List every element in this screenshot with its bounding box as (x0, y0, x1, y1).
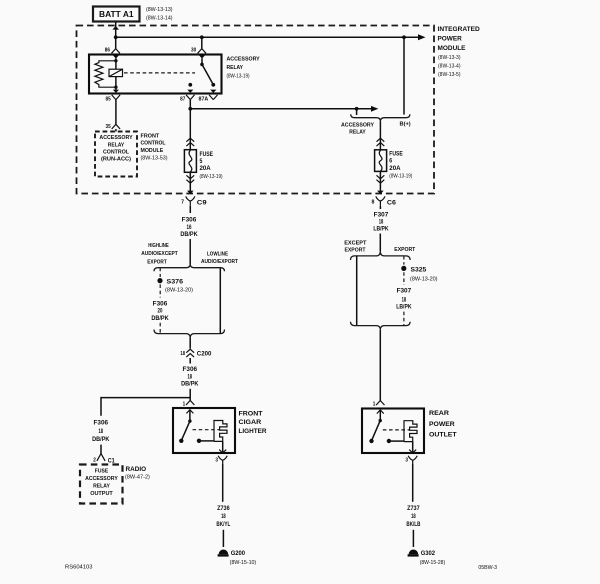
svg-text:1: 1 (373, 401, 376, 407)
lowline audio label (201, 251, 238, 265)
svg-text:OUTLET: OUTLET (429, 431, 457, 438)
fuse 5 (184, 150, 196, 173)
ground G302 (408, 550, 419, 557)
cigar lighter actuation dashed link (193, 429, 221, 431)
svg-text:18: 18 (402, 297, 407, 303)
wire fuse 6 to C6 (377, 171, 385, 194)
wire to radio C1 (97, 445, 105, 461)
svg-text:RELAY: RELAY (93, 483, 110, 489)
export label (394, 247, 415, 253)
cigar lighter heating element (214, 421, 227, 442)
svg-text:EXPORT: EXPORT (394, 247, 415, 253)
connector C9 (186, 196, 195, 206)
svg-text:BATT A1: BATT A1 (99, 10, 134, 19)
svg-text:EXPORT: EXPORT (345, 247, 366, 253)
wire C6 down (379, 206, 381, 209)
svg-text:REAR: REAR (429, 410, 449, 417)
svg-text:20A: 20A (389, 166, 401, 172)
svg-text:F306: F306 (153, 301, 168, 307)
wire merge to C200 (189, 338, 191, 349)
brace accessory relay and B(+) (351, 114, 410, 121)
pin 87 connector fork (186, 95, 194, 100)
svg-text:CONTROL: CONTROL (103, 150, 129, 156)
brace audio split top (154, 264, 225, 271)
svg-text:87: 87 (180, 96, 185, 102)
connector C6 label (387, 200, 396, 207)
cigar lighter pin 1 entry arrow (186, 410, 193, 421)
connector fork pin 3 cigar (218, 456, 227, 464)
rear outlet switch contact (387, 439, 391, 443)
pin 85 connector fork (112, 95, 120, 100)
relay switch pivot (200, 63, 204, 67)
wire Z737 upper (412, 464, 414, 502)
svg-text:ACCESSORY: ACCESSORY (99, 135, 132, 141)
svg-text:(8W-13-20): (8W-13-20) (410, 276, 438, 282)
svg-text:FRONT: FRONT (239, 410, 263, 417)
svg-text:C1: C1 (108, 457, 115, 464)
brace audio merge bottom (154, 330, 225, 338)
wire highline branch dashed lower (159, 323, 161, 334)
svg-text:POWER: POWER (438, 36, 463, 43)
junction bus-B+ (402, 35, 406, 39)
cigar lighter element output wire (219, 441, 226, 453)
rear outlet element output wire (409, 442, 416, 453)
svg-text:(8W-15-10): (8W-15-10) (230, 560, 257, 566)
wire Z736 lower (222, 530, 224, 547)
svg-text:16: 16 (187, 225, 192, 231)
svg-text:MODULE: MODULE (438, 45, 467, 52)
svg-text:3: 3 (405, 458, 408, 464)
pin 85 label (106, 96, 111, 102)
front control module connector box (accessory relay control) (95, 132, 137, 177)
svg-text:18: 18 (221, 514, 226, 520)
accessory relay label (227, 57, 260, 80)
svg-text:35: 35 (106, 124, 111, 130)
svg-text:ACCESSORY: ACCESSORY (227, 57, 260, 63)
sheet number RS604103 (65, 565, 93, 571)
wire to cigar lighter pin 1 (186, 389, 194, 405)
cigar lighter switch contact (197, 439, 201, 443)
junction bus-batt (114, 35, 118, 39)
junction bus-pin30 (200, 35, 204, 39)
rear power outlet box (362, 409, 424, 454)
svg-text:F307: F307 (374, 213, 389, 219)
svg-text:(8W-13-14): (8W-13-14) (146, 15, 173, 21)
pin 1 label rear power outlet (373, 401, 376, 407)
svg-text:18: 18 (180, 351, 185, 357)
svg-text:RELAY: RELAY (108, 142, 125, 148)
svg-text:20: 20 (158, 309, 163, 315)
svg-text:20A: 20A (200, 166, 212, 172)
svg-text:(8W-13-5): (8W-13-5) (438, 72, 461, 78)
svg-text:FUSE: FUSE (95, 468, 109, 474)
connector C200 (186, 349, 194, 357)
wire radio branch horizontal (101, 398, 190, 416)
svg-text:7: 7 (181, 199, 184, 205)
wire 87 to fuse 5 (189, 109, 191, 150)
pin 30 entry arrowhead (199, 55, 205, 64)
fuse 6 label (389, 151, 412, 179)
wire Z737 lower (412, 530, 414, 547)
relay switch blade 30 to 87A (202, 64, 215, 86)
wire BATT A1 down through IPM border (112, 22, 119, 38)
front control module label (141, 133, 168, 161)
rear outlet actuation dashed link (383, 429, 410, 431)
wire label F306 16 DB/PK (180, 218, 198, 239)
pin 1 label front cigar lighter (183, 401, 186, 407)
battery feed BATT A1 (93, 7, 140, 22)
svg-text:(8W-15-28): (8W-15-28) (420, 560, 446, 566)
svg-text:(RUN-ACC): (RUN-ACC) (101, 157, 131, 163)
wire label F306 20 DB/PK (151, 301, 169, 321)
splice S325 (401, 266, 406, 271)
ground G200 (218, 550, 229, 557)
connector chevrons above fuse 6 (377, 138, 385, 146)
svg-text:(8W-13-19): (8W-13-19) (227, 74, 250, 80)
integrated power module label (438, 26, 481, 78)
junction 87 feed (188, 107, 192, 111)
junction coil top (114, 59, 117, 62)
wire bus to relay pin 86 (112, 37, 120, 53)
svg-text:POWER: POWER (429, 421, 455, 428)
svg-text:18: 18 (188, 374, 193, 380)
pin 86 entry arrowhead (113, 55, 119, 61)
connector C6 (376, 196, 385, 206)
pin 3 label rear power outlet (405, 458, 408, 464)
svg-text:(8W-47-2): (8W-47-2) (125, 474, 150, 480)
front cigar lighter box (173, 408, 235, 453)
wire export branch dashed lower (403, 312, 405, 326)
svg-text:ACCESSORY: ACCESSORY (341, 122, 374, 128)
svg-text:S325: S325 (411, 266, 427, 273)
svg-text:Z736: Z736 (217, 506, 230, 512)
svg-text:HIGHLINE: HIGHLINE (148, 243, 169, 249)
svg-text:ACCESSORY: ACCESSORY (85, 476, 118, 482)
wire accessory relay feed to brace (190, 106, 378, 112)
svg-text:05BW-3: 05BW-3 (478, 565, 497, 571)
pin 87 label (180, 96, 185, 102)
svg-text:RELAY: RELAY (349, 129, 366, 135)
wire label F307 18 LB/PK (373, 213, 389, 233)
svg-text:86: 86 (105, 48, 110, 54)
svg-text:DB/PK: DB/PK (92, 437, 110, 443)
wire fuse 5 to C9 (186, 172, 194, 194)
svg-text:(8W-13-20): (8W-13-20) (165, 287, 193, 293)
radio label (125, 466, 150, 481)
svg-text:RS604103: RS604103 (65, 565, 93, 571)
highline audio label (141, 243, 178, 266)
svg-text:(8W-13-19): (8W-13-19) (389, 173, 412, 179)
svg-text:S376: S376 (167, 278, 184, 285)
svg-text:FUSE: FUSE (389, 151, 403, 157)
wire lowline branch (219, 268, 221, 334)
wire label Z736 18 BK/YL (216, 506, 230, 528)
svg-text:87A: 87A (199, 96, 209, 102)
svg-text:EXCEPT: EXCEPT (344, 241, 367, 247)
ground G302 label (420, 550, 446, 566)
svg-text:LB/PK: LB/PK (373, 227, 389, 233)
pin 87A exit arrowhead (210, 90, 216, 93)
svg-text:RADIO: RADIO (126, 466, 147, 473)
svg-text:DB/PK: DB/PK (180, 232, 198, 238)
svg-text:DB/PK: DB/PK (181, 382, 199, 388)
rear outlet pin 1 entry arrow (377, 410, 384, 421)
svg-text:LIGHTER: LIGHTER (239, 428, 267, 435)
B(+) source label (400, 122, 411, 128)
wire bus to relay pin 30 (198, 37, 206, 53)
svg-text:FRONT: FRONT (141, 133, 160, 139)
wire to audio split (189, 239, 191, 264)
pin 35 label (106, 124, 111, 130)
svg-text:8: 8 (372, 199, 375, 205)
wire export branch dashed (403, 256, 405, 265)
svg-text:18: 18 (99, 429, 104, 435)
relay actuation dashed link (124, 72, 195, 74)
cigar lighter switch blade (179, 421, 190, 443)
connector C200 label (197, 351, 212, 358)
connector C1 label (108, 457, 115, 464)
wire C200 down (189, 358, 191, 364)
svg-text:LOWLINE: LOWLINE (207, 251, 228, 257)
svg-text:BK/LB: BK/LB (406, 522, 420, 528)
pin 30 label (191, 48, 196, 54)
svg-text:2: 2 (93, 457, 96, 463)
wire except-export branch (356, 256, 358, 326)
except export label (344, 241, 367, 254)
splice S376 (157, 278, 162, 283)
relay contact 87 (188, 83, 192, 87)
fuse 5 label (200, 152, 223, 180)
ground G200 label (230, 550, 257, 566)
svg-text:18: 18 (379, 219, 384, 225)
svg-text:B(+): B(+) (400, 122, 411, 128)
wire B(+) from bus to brace (403, 37, 405, 114)
wire to export split (379, 234, 381, 252)
rear outlet switch blade (369, 421, 380, 444)
splice S325 label (410, 266, 438, 282)
brace export split top (351, 251, 411, 260)
relay coil (109, 61, 123, 87)
svg-text:(8W-13-19): (8W-13-19) (200, 174, 223, 180)
wire label F306 18 DB/PK (181, 367, 199, 388)
svg-text:C6: C6 (387, 200, 396, 207)
pin 87A label (199, 96, 209, 102)
wire brace to fuse 6 (379, 121, 381, 150)
radio connector box (fused accessory relay output) (80, 465, 123, 504)
pin 8 label (372, 199, 375, 205)
svg-text:LB/PK: LB/PK (396, 305, 412, 311)
rear outlet switch pivot (379, 419, 382, 422)
brace export merge bottom (351, 322, 411, 330)
svg-text:AUDIO/EXPORT: AUDIO/EXPORT (201, 259, 238, 265)
front cigar lighter label (239, 410, 267, 435)
rear outlet heating element (404, 421, 417, 442)
junction accessory feed (355, 107, 359, 115)
pin 85 exit arrowhead (113, 87, 119, 93)
svg-text:6: 6 (389, 159, 392, 165)
svg-text:C200: C200 (197, 351, 212, 358)
svg-text:(8W-13-3): (8W-13-3) (438, 55, 461, 61)
integrated power module boundary (77, 26, 435, 194)
svg-text:(8W-13-4): (8W-13-4) (438, 63, 461, 69)
pin 87 exit arrowhead (187, 90, 193, 93)
svg-text:G200: G200 (231, 550, 246, 557)
accessory relay source label (341, 122, 374, 135)
pin 87A connector fork (209, 95, 217, 100)
svg-text:18: 18 (411, 514, 416, 520)
connector chevrons above fuse 5 (186, 138, 194, 146)
fuse 6 (375, 150, 387, 172)
wire highline branch dashed (159, 268, 161, 277)
svg-text:3: 3 (215, 458, 218, 464)
wire label Z737 18 BK/LB (406, 506, 420, 528)
svg-text:F307: F307 (397, 289, 412, 295)
svg-text:CIGAR: CIGAR (239, 419, 262, 426)
sheet number 05BW-3 (478, 565, 497, 571)
splice S376 label (165, 278, 193, 293)
wire contact to element (199, 440, 214, 442)
svg-text:FUSE: FUSE (200, 152, 214, 158)
cigar lighter switch pivot (188, 419, 191, 422)
svg-text:F306: F306 (94, 421, 109, 427)
pin 18 label (180, 351, 185, 357)
bus wire B(+) horizontal (116, 34, 426, 40)
svg-text:F306: F306 (183, 367, 198, 373)
svg-text:DB/PK: DB/PK (151, 316, 169, 322)
svg-text:5: 5 (200, 159, 203, 165)
wire label F306 18 DB/PK radio branch (92, 421, 110, 444)
svg-text:CONTROL: CONTROL (141, 141, 166, 147)
wire label F307 18 LB/PK export (396, 289, 412, 311)
wire relay 85 to FCM pin 35 (112, 100, 120, 132)
accessory relay box (89, 55, 222, 94)
label (8W-13-13) (8W-13-14) (146, 7, 173, 21)
wire C9 down (189, 206, 191, 213)
pin 86 label (105, 48, 110, 54)
svg-text:1: 1 (183, 401, 186, 407)
svg-text:OUTPUT: OUTPUT (90, 491, 113, 497)
relay coil resistor (95, 61, 116, 87)
wire highline branch dashed below splice (159, 284, 161, 297)
svg-text:MODULE: MODULE (141, 148, 164, 154)
svg-text:EXPORT: EXPORT (147, 259, 167, 265)
pin 3 label front cigar lighter (215, 458, 218, 464)
wire export branch dashed below splice (403, 272, 405, 285)
wire contact to element rear (389, 440, 404, 442)
svg-text:G302: G302 (421, 550, 436, 557)
junction coil bottom (114, 86, 117, 89)
rear power outlet label (429, 410, 457, 438)
pin 7 label (181, 199, 184, 205)
wire Z736 upper (222, 464, 224, 502)
svg-text:RELAY: RELAY (227, 65, 244, 71)
svg-text:85: 85 (106, 96, 111, 102)
svg-text:Z737: Z737 (407, 506, 420, 512)
svg-text:(8W-13-13): (8W-13-13) (146, 7, 173, 13)
wire relay 87 down (189, 100, 191, 109)
svg-text:30: 30 (191, 48, 196, 54)
connector C9 label (197, 200, 207, 207)
wire merge to rear power outlet pin 1 (376, 330, 384, 405)
svg-text:C9: C9 (197, 200, 207, 207)
svg-text:BK/YL: BK/YL (216, 522, 230, 528)
svg-text:AUDIO/EXCEPT: AUDIO/EXCEPT (141, 251, 178, 257)
pin 2 label (93, 457, 96, 463)
svg-text:(8W-13-53): (8W-13-53) (141, 155, 168, 161)
connector fork pin 3 rear (408, 456, 417, 464)
svg-text:INTEGRATED: INTEGRATED (438, 26, 481, 33)
svg-text:F306: F306 (182, 218, 197, 224)
